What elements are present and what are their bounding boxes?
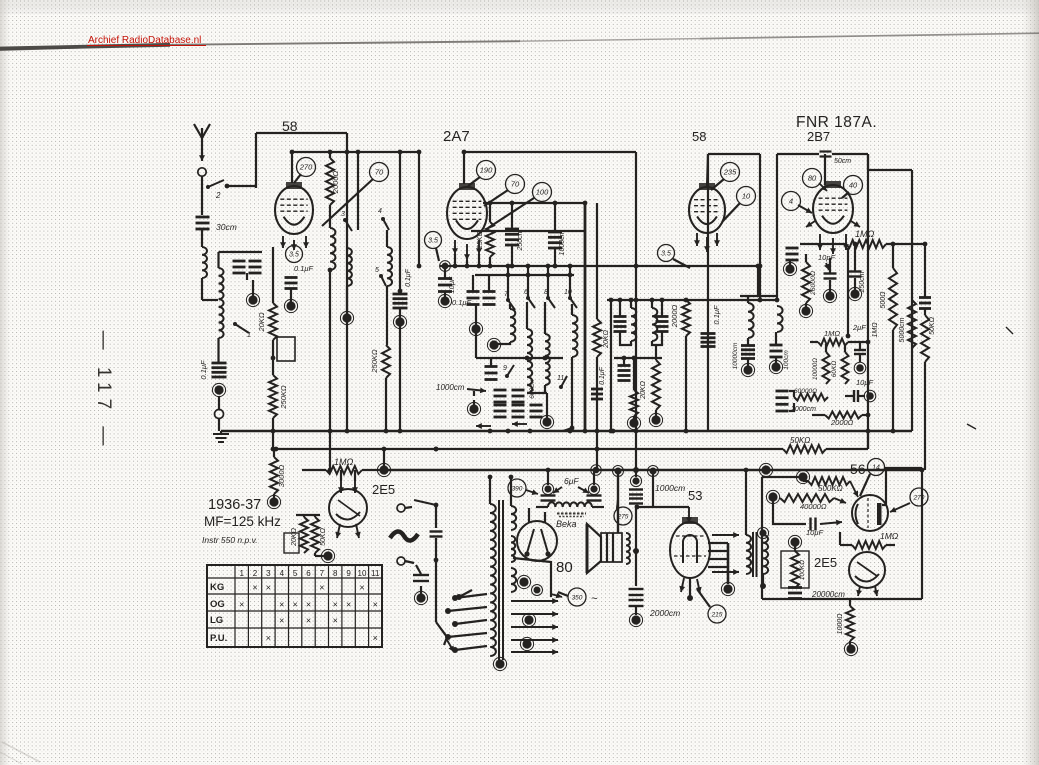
wire 58a top cap	[291, 152, 293, 183]
wire x634 down	[633, 505, 639, 586]
resistor 100K box	[781, 535, 809, 588]
terminal blob antenna	[212, 383, 225, 396]
coil band 2 long	[527, 302, 532, 393]
wire 2A7 grid line	[483, 202, 585, 204]
box 56 top	[762, 470, 810, 483]
switch 4	[378, 208, 389, 230]
svg-text:1000cm: 1000cm	[559, 230, 566, 255]
label 2000 x686 rot	[670, 305, 679, 329]
resistor 1M b	[810, 329, 870, 346]
svg-text:25KΩ: 25KΩ	[477, 230, 484, 249]
label 1000cm arrow	[436, 383, 486, 393]
wire bottom bus y431	[221, 430, 912, 432]
svg-text:3000Ω: 3000Ω	[277, 465, 286, 488]
trimmer pair antenna	[232, 252, 262, 280]
pickup squiggle	[390, 531, 418, 540]
box 56 bottom	[762, 598, 922, 600]
tube label 2A7	[443, 128, 470, 145]
resistor x912	[908, 300, 916, 348]
svg-text:6μF: 6μF	[564, 476, 579, 486]
IF cap 1b	[656, 298, 669, 332]
red watermark Archief RadioDatabase.nl	[87, 35, 206, 46]
svg-text:20KΩ: 20KΩ	[640, 380, 647, 399]
tube label 58 second	[692, 129, 706, 144]
svg-text:215: 215	[711, 611, 723, 618]
capacitor x597 small	[591, 389, 603, 399]
wire sec top	[219, 252, 235, 268]
transformer secondary 1	[511, 506, 516, 530]
wire antenna below cap	[201, 229, 203, 247]
label 50KΩ	[790, 436, 810, 445]
voltage circle 235	[711, 163, 740, 191]
label 1000 rot	[837, 613, 844, 635]
label 50K 2E5 rot	[320, 527, 327, 545]
capacitor 0.1uF x708	[701, 334, 716, 347]
svg-text:×: ×	[373, 633, 378, 643]
wire 58b box top	[708, 153, 760, 155]
arrow left padder	[476, 421, 527, 429]
label 1M 56	[880, 531, 899, 541]
padder cap 5	[530, 405, 543, 417]
switch 2 antenna	[206, 180, 256, 200]
svg-text:10000cm: 10000cm	[732, 342, 739, 369]
terminal blob padder	[467, 391, 480, 416]
label Instr	[202, 535, 258, 545]
svg-text:8: 8	[333, 569, 338, 578]
capacitor x491	[485, 358, 498, 380]
svg-text:600cm: 600cm	[529, 379, 536, 399]
svg-text:14: 14	[872, 465, 880, 472]
svg-text:2E5: 2E5	[814, 555, 837, 570]
svg-text:40000Ω: 40000Ω	[800, 502, 827, 511]
label 1M a	[855, 229, 875, 239]
transformer secondary 3	[511, 568, 516, 592]
tube 80	[517, 508, 557, 561]
speaker driver	[601, 533, 622, 562]
switch wave band	[233, 322, 251, 339]
svg-text:1000Ω: 1000Ω	[837, 613, 844, 635]
wire x273 mid	[271, 340, 276, 375]
label 0.1uF rot	[199, 360, 208, 380]
svg-text:50cm: 50cm	[834, 158, 851, 165]
wire vertical x400	[398, 150, 403, 291]
electrolytic 10uF	[438, 266, 452, 308]
label 250K x387 rot	[370, 349, 379, 374]
label 40000	[800, 502, 827, 511]
svg-text:3: 3	[266, 569, 271, 578]
junction dots bus431	[345, 429, 616, 434]
label 500K	[818, 484, 843, 493]
svg-text:80: 80	[808, 174, 817, 183]
label 250cm rot	[517, 229, 524, 251]
arrow 53 to transformer bottom	[712, 569, 739, 575]
svg-text:56: 56	[850, 461, 866, 477]
label 2E5 left	[372, 482, 395, 497]
choke core hatch	[557, 514, 586, 517]
wire sec down	[217, 338, 219, 362]
capacitor 30cm antenna	[196, 217, 210, 229]
IF cap 2low	[618, 358, 631, 381]
svg-text:3: 3	[341, 211, 345, 218]
label 5000cm rot	[899, 317, 906, 342]
svg-text:10pF: 10pF	[818, 253, 836, 262]
wire 40000 loop	[773, 501, 806, 524]
label 30cm	[216, 222, 237, 232]
wire PU down	[435, 505, 437, 528]
wire bus y300	[607, 299, 777, 301]
svg-text:OG: OG	[210, 599, 225, 610]
svg-text:2000Ω: 2000Ω	[331, 171, 340, 195]
svg-text:10000Ω: 10000Ω	[812, 358, 819, 380]
svg-text:1MΩ: 1MΩ	[334, 457, 354, 467]
voltage circle 80	[803, 169, 828, 192]
voltage circle 4	[782, 192, 813, 214]
label 20K x597 rot	[603, 329, 610, 348]
label 1M 2E5l	[334, 457, 354, 467]
wire antenna down	[201, 176, 203, 215]
svg-text:×: ×	[279, 616, 284, 626]
tube 2E5 left	[329, 479, 367, 538]
tube 53	[670, 517, 710, 578]
label 1936-37	[208, 497, 261, 513]
faint corner streaks	[0, 742, 40, 764]
svg-text:×: ×	[252, 583, 257, 593]
terminal blob 80	[517, 575, 542, 595]
wire switch sub-bus	[475, 273, 574, 278]
wire sub-bus y358	[490, 356, 563, 361]
resistor 250K x387	[382, 345, 390, 378]
voltage circle 275	[614, 500, 632, 525]
svg-text:250cm: 250cm	[859, 271, 866, 293]
label 100cm 2b7 rot	[783, 350, 790, 370]
small pen tick	[967, 424, 976, 429]
label 250cm 2b7 rot	[859, 271, 866, 293]
svg-text:2: 2	[215, 191, 221, 200]
svg-text:50KΩ: 50KΩ	[929, 316, 936, 334]
svg-text:P.U.: P.U.	[210, 633, 227, 644]
wire 56 plate	[882, 468, 924, 505]
svg-text:Archief RadioDatabase.nl: Archief RadioDatabase.nl	[88, 35, 201, 46]
svg-text:2B7: 2B7	[807, 129, 830, 144]
transformer secondary 2	[511, 536, 515, 562]
svg-text:2A7: 2A7	[443, 128, 470, 145]
capacitor 20000cm	[788, 588, 802, 599]
IF coil 2a	[748, 296, 754, 338]
label 600cm rot	[529, 379, 536, 399]
tube 53 bottom pins	[679, 578, 701, 601]
svg-text:9: 9	[346, 569, 351, 578]
electrolytic 6uF a	[541, 468, 556, 501]
capacitor PU	[430, 532, 443, 537]
resistor 2000 b	[812, 412, 870, 428]
waveband selector table	[207, 565, 382, 647]
label 10uF 56	[806, 528, 823, 537]
coil antenna primary	[202, 247, 207, 278]
resistor 250K left	[269, 375, 277, 418]
label 6uF	[553, 476, 589, 493]
svg-text:1: 1	[247, 332, 251, 339]
wire vertical x760 58b box right	[758, 154, 763, 302]
IF cap 1a	[614, 298, 627, 332]
voltage circle 100	[488, 183, 552, 229]
label 2600 rot	[810, 271, 817, 296]
svg-text:500KΩ: 500KΩ	[818, 484, 843, 493]
svg-text:350: 350	[572, 594, 583, 601]
capacitor 1000cm b	[629, 467, 643, 504]
title FNR 187A	[796, 114, 877, 131]
svg-text:~: ~	[591, 593, 598, 605]
small box 2E5	[284, 533, 299, 553]
voltage circle 215	[697, 589, 726, 623]
svg-text:500Ω: 500Ω	[880, 291, 887, 309]
label 20K if rot	[640, 380, 647, 399]
padder cap 4	[512, 405, 525, 417]
svg-text:2000Ω: 2000Ω	[670, 305, 679, 329]
voltage circle 270 b	[890, 488, 928, 512]
resistor 20K 2E5	[296, 515, 320, 553]
svg-text:10μF: 10μF	[806, 528, 823, 537]
tube 58 second	[689, 183, 725, 252]
wire 2B7 col a	[783, 248, 798, 276]
wire x387 to bus	[384, 378, 389, 433]
wire outtr top	[744, 468, 749, 535]
wire if bus y358	[614, 356, 662, 361]
tube 53 side pins	[708, 543, 728, 567]
coil x387	[387, 230, 392, 286]
trimmer pair mid	[467, 275, 496, 305]
svg-text:53: 53	[688, 488, 702, 503]
wire vertical x708 58b box left	[707, 154, 709, 431]
resistor x893	[889, 242, 897, 434]
label 0.1uF x708 rot	[712, 305, 721, 325]
svg-text:60000Ω: 60000Ω	[794, 388, 817, 395]
svg-text:5000cm: 5000cm	[899, 317, 906, 342]
wire bus 58a top cap	[292, 151, 419, 153]
wire 58 box left	[255, 133, 257, 188]
choke coil Beka	[536, 502, 604, 507]
wire 58 box top	[256, 132, 347, 134]
capacitor 250cm 2b7	[848, 242, 861, 301]
voltage circle 3.5 a	[286, 246, 303, 263]
svg-text:70: 70	[511, 180, 520, 189]
svg-text:390: 390	[512, 485, 523, 492]
svg-text:4: 4	[378, 208, 382, 215]
resistor 1M 56	[840, 532, 895, 549]
label 20000cm	[811, 590, 845, 599]
svg-text:10μF: 10μF	[856, 378, 873, 387]
svg-text:250KΩ: 250KΩ	[279, 385, 288, 410]
wire PU down2	[434, 538, 439, 622]
junction dots bus449	[274, 447, 600, 452]
label 10000cm rot	[732, 342, 739, 369]
padder cap 2	[512, 390, 525, 402]
svg-text:70: 70	[375, 168, 384, 177]
capacitor 50cm on 2B7 box top	[820, 152, 832, 157]
capacitor 250cm	[505, 201, 519, 269]
electrolytic 6uF b	[587, 465, 602, 501]
label 10000 rot	[812, 358, 819, 380]
label 80	[556, 559, 573, 576]
resistor 500K	[803, 477, 858, 497]
wire band1 down	[487, 338, 510, 351]
tube 2E5 right	[849, 552, 885, 596]
wire transformer tops	[488, 475, 514, 506]
svg-text:270: 270	[299, 163, 313, 172]
svg-text:11: 11	[371, 569, 380, 578]
ground symbol	[213, 431, 229, 442]
label 53	[688, 488, 702, 503]
svg-text:235: 235	[723, 168, 737, 177]
svg-text:20KΩ: 20KΩ	[257, 312, 266, 332]
tube label 58 first IF	[282, 118, 298, 134]
terminal blob 58a cath	[284, 289, 297, 313]
wire 2A7 top cap	[463, 152, 465, 184]
wire vertical x597	[593, 203, 601, 470]
wire 2A7 cathode line	[471, 230, 585, 232]
svg-text:1MΩ: 1MΩ	[872, 322, 879, 338]
svg-text:5: 5	[293, 569, 298, 578]
padder cap 3	[494, 405, 507, 417]
svg-text:40: 40	[849, 181, 858, 190]
svg-text:30cm: 30cm	[216, 222, 237, 232]
voltage circle 70 a	[322, 163, 389, 227]
svg-text:10: 10	[742, 192, 751, 201]
svg-text:2: 2	[253, 569, 258, 578]
svg-text:100cm: 100cm	[783, 350, 790, 370]
junction dots bus470	[759, 463, 772, 476]
svg-text:5: 5	[375, 267, 379, 274]
voltage circle 3.5 c	[658, 245, 691, 269]
resistor if2low b	[652, 345, 660, 410]
small mark right edge	[1006, 327, 1013, 334]
svg-text:1000cm: 1000cm	[655, 483, 685, 493]
label 20K rot	[257, 312, 266, 332]
tube 2B7 diode pins	[806, 221, 860, 227]
antenna	[194, 124, 210, 161]
wire 2B7 box top left	[777, 153, 819, 155]
terminal pickup	[397, 557, 414, 565]
scan smudge line across top	[0, 33, 1039, 50]
label 60K rot	[831, 361, 838, 378]
svg-text:4: 4	[789, 197, 793, 206]
wire long vertical x347	[346, 133, 348, 431]
resistor if2low	[630, 358, 638, 416]
voltage circle 390	[508, 479, 538, 497]
terminal blob if2low	[627, 416, 640, 430]
voltage circle 14	[860, 459, 885, 497]
trimmer x400	[393, 294, 408, 308]
resistor 1M 2E5l	[302, 463, 391, 476]
label 500 rot	[880, 291, 887, 309]
wire if1a join	[620, 331, 631, 345]
svg-text:3.5: 3.5	[661, 251, 671, 258]
svg-text:0.1μF: 0.1μF	[599, 366, 606, 385]
switch 5	[375, 267, 386, 286]
label 1000cm rot	[559, 230, 566, 255]
wire vertical x358	[356, 150, 361, 230]
wire vertical x636	[634, 152, 639, 472]
terminal blob 2E5	[315, 549, 335, 562]
wire x273 top	[272, 247, 274, 303]
tube 58 first	[275, 182, 313, 250]
page number 117 rotated in left margin	[93, 331, 114, 452]
svg-text:60KΩ: 60KΩ	[831, 361, 838, 378]
label 1M rot x880	[872, 322, 879, 338]
terminal blob x347	[340, 286, 353, 325]
terminal blob if2low b	[649, 410, 662, 427]
speaker cone	[587, 524, 601, 573]
tube 2A7	[447, 183, 487, 260]
resistor 2000 osc	[326, 150, 334, 205]
IF cap 2a	[741, 338, 755, 359]
wire bus y449 left	[276, 448, 783, 450]
svg-text:50KΩ: 50KΩ	[790, 436, 810, 445]
transformer core	[499, 500, 503, 660]
switch 8	[544, 264, 555, 308]
svg-text:270: 270	[913, 494, 925, 501]
terminal blob x400	[393, 308, 406, 433]
IF coil 1b	[650, 298, 658, 341]
wire 53 grid feed	[635, 466, 692, 524]
label 10pF	[818, 253, 836, 270]
IF coil 1a	[629, 298, 637, 341]
label 20K 2E5 rot	[291, 527, 298, 546]
svg-text:250cm: 250cm	[517, 229, 524, 251]
wire 2B7 to right rail	[868, 154, 912, 170]
loop rect 20K	[277, 337, 295, 361]
svg-text:100KΩ: 100KΩ	[799, 560, 806, 580]
svg-text:1MΩ: 1MΩ	[855, 229, 875, 239]
tube 56	[852, 495, 888, 531]
resistor x925	[921, 309, 929, 470]
svg-text:KG: KG	[210, 582, 224, 593]
terminal radio	[397, 504, 405, 512]
resistor 1M horiz	[800, 240, 925, 248]
terminal blob mid-trim	[469, 305, 490, 358]
label 2E5 right	[814, 555, 837, 570]
coil band 1	[510, 304, 515, 342]
terminal blob outtr sec	[757, 527, 768, 589]
wire bus y470	[384, 469, 922, 471]
resistor 60K b	[823, 344, 849, 384]
svg-text:26000Ω: 26000Ω	[810, 271, 817, 296]
wire x925	[919, 242, 931, 309]
label 2000 rot	[331, 171, 340, 195]
svg-text:1MΩ: 1MΩ	[880, 531, 899, 541]
svg-text:3.5: 3.5	[428, 238, 438, 245]
wire speaker feed	[613, 466, 624, 534]
svg-text:9: 9	[503, 365, 507, 372]
capacitor 1000cm a	[548, 201, 562, 269]
coil 2b7 left	[769, 306, 782, 374]
svg-text:80: 80	[556, 559, 573, 576]
svg-text:58: 58	[692, 129, 706, 144]
wire coil to sec	[202, 278, 218, 300]
secondary tap arrows	[493, 598, 558, 671]
padder cap 1	[494, 390, 507, 402]
box 56 left edge	[761, 477, 763, 599]
wire x273 to bus	[271, 418, 276, 451]
switch 6	[524, 264, 535, 308]
svg-text:0.1μF: 0.1μF	[712, 305, 721, 325]
switch 3	[341, 211, 352, 231]
svg-text:100: 100	[536, 188, 549, 197]
label 0.1uF x597 rot	[599, 366, 606, 385]
resistor 3000 ohm	[270, 449, 278, 494]
wire 53 cathode down	[689, 578, 691, 598]
svg-text:×: ×	[266, 583, 271, 593]
voltage circle 270	[294, 158, 316, 184]
